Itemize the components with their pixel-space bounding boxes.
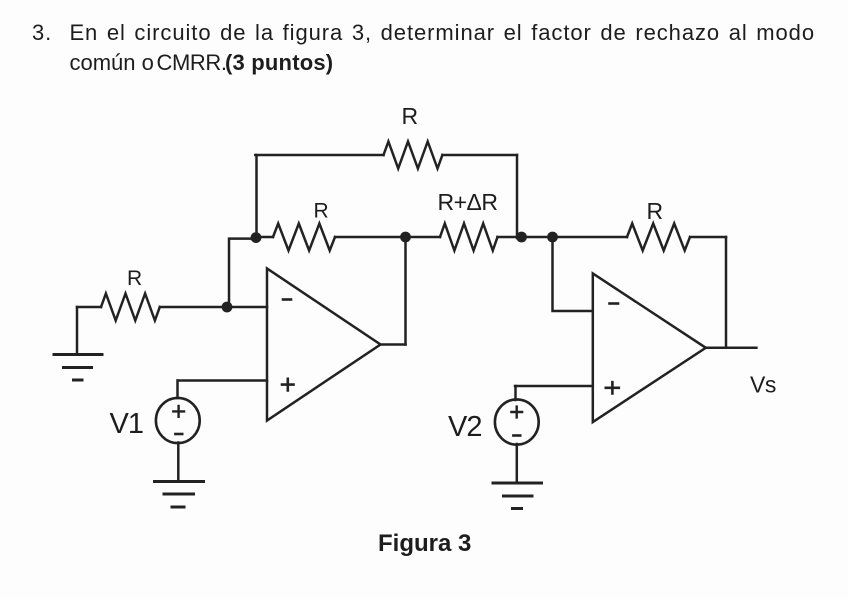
wire: R5 to op-amp U1 inverting input	[160, 306, 267, 309]
ground G2	[155, 482, 204, 508]
op-amp U2	[593, 273, 706, 422]
wire: V2 top stem	[514, 386, 517, 400]
problem statement line 2 CMRR	[157, 50, 227, 76]
wire: left input horizontal	[77, 306, 101, 309]
V2 minus sign	[513, 434, 520, 437]
op-amp U1 non-inverting input sign	[282, 379, 294, 391]
svg-text:V1: V1	[110, 408, 143, 440]
node A junction dot	[251, 232, 262, 243]
op-amp U2 non-inverting input sign	[606, 382, 619, 393]
resistor R5 (input)	[101, 294, 160, 321]
V1 minus sign	[175, 433, 182, 436]
wire: output up to node B	[404, 237, 407, 345]
V2 plus sign	[511, 407, 522, 418]
svg-text:R+ΔR: R+ΔR	[438, 189, 498, 215]
wire: op-amp U1 output	[381, 343, 406, 346]
node E junction dot	[222, 302, 233, 313]
wire: top feedback horizontal left	[255, 154, 383, 157]
wire: jog from node A down to node E	[229, 239, 257, 307]
svg-text:R: R	[402, 103, 419, 129]
wire: node B to resistor R+dR	[406, 236, 441, 239]
op-amp U2 inverting input sign	[610, 302, 619, 305]
voltage source V2	[495, 399, 539, 444]
figure caption	[378, 530, 471, 558]
svg-text:Vs: Vs	[750, 372, 776, 398]
wire: op-amp U2 output to Vs	[706, 347, 757, 350]
problem statement line 1	[32, 20, 815, 46]
ground G3	[493, 483, 542, 509]
wire: op-amp U1 non-inverting input	[178, 379, 267, 382]
wire: ground stem left input	[76, 307, 79, 354]
wire: top feedback right vertical	[516, 155, 519, 238]
node C junction dot	[516, 232, 527, 243]
op-amp U1	[267, 269, 381, 421]
wire: node A to R2	[257, 236, 274, 239]
resistor R1 (top feedback)	[384, 142, 443, 169]
wire: node D down and to op-amp U2 inverting input	[553, 237, 593, 311]
op-amp U1 inverting input sign	[283, 298, 291, 301]
wire: top feedback left vertical	[255, 155, 258, 237]
ground G1	[54, 355, 102, 381]
node D junction dot	[547, 232, 558, 243]
resistor R4 (second stage feedback)	[627, 224, 690, 251]
wire: feedback right vertical down to output	[725, 237, 728, 348]
wire: V2 bottom stem	[516, 444, 519, 483]
wire: V1 top stem	[176, 381, 179, 399]
svg-text:V2: V2	[448, 411, 481, 443]
wire: R4 to feedback corner	[690, 236, 726, 239]
wire: R2 to node B	[335, 236, 406, 239]
svg-text:R: R	[127, 267, 142, 290]
resistor R3 (R+dR)	[440, 224, 498, 251]
wire: op-amp U2 non-inverting input	[515, 385, 593, 388]
svg-text:R: R	[314, 200, 329, 223]
resistor R2 (first stage feedback)	[273, 224, 335, 251]
wire: top feedback horizontal right	[442, 154, 517, 157]
svg-text:R: R	[647, 198, 664, 224]
wire: V1 bottom stem	[177, 443, 180, 482]
voltage source V1	[156, 398, 200, 443]
V1 plus sign	[173, 406, 184, 417]
node B junction dot	[400, 232, 411, 243]
problem statement line 2 puntos	[225, 50, 333, 76]
wire: R3 to node C to node D to R4	[498, 236, 628, 239]
problem statement line 2	[70, 50, 154, 76]
